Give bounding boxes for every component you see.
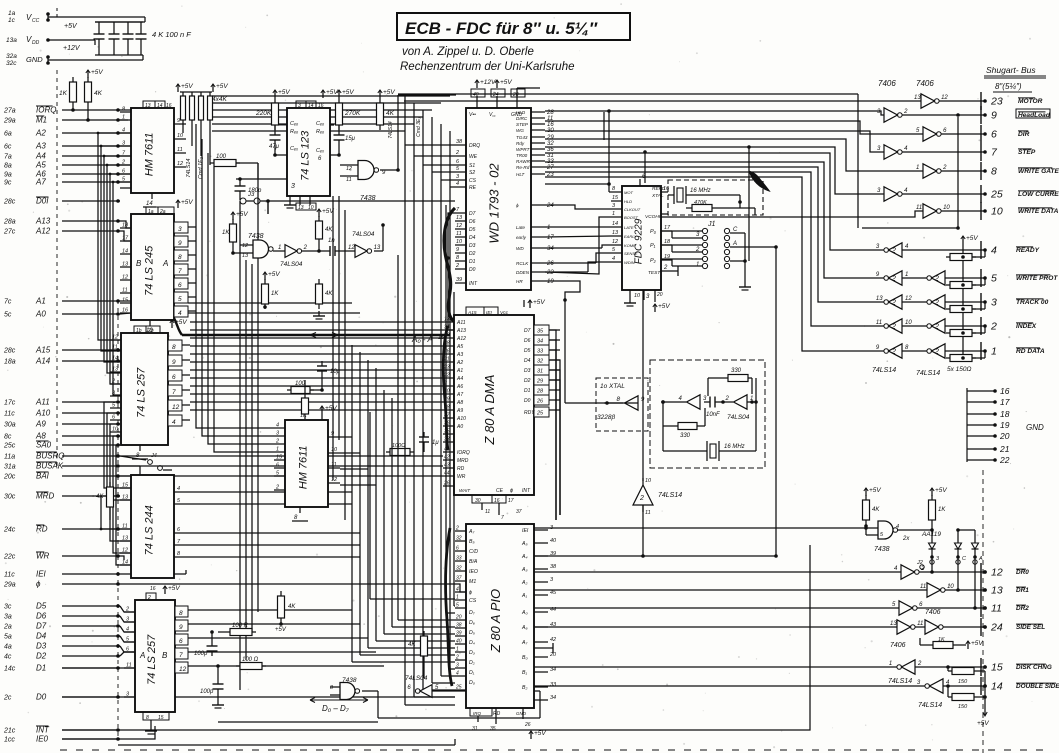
jumper J1 wires — [672, 230, 702, 232]
svg-text:11: 11 — [920, 584, 926, 590]
svg-text:A2: A2 — [456, 360, 463, 366]
svg-text:4c: 4c — [4, 654, 12, 661]
wire HeadLoad out — [902, 114, 985, 116]
svg-text:37: 37 — [516, 509, 522, 515]
node GND2 — [46, 55, 50, 59]
wire wd right verticals — [603, 112, 605, 140]
wire MOTOR in — [404, 100, 921, 102]
svg-text:J3: J3 — [247, 192, 255, 198]
svg-text:15: 15 — [991, 662, 1003, 674]
svg-text:38: 38 — [456, 139, 463, 145]
svg-text:32a: 32a — [6, 53, 17, 60]
svg-text:+5V: +5V — [181, 83, 193, 90]
svg-text:HR: HR — [516, 279, 523, 284]
capacitor 47u — [270, 134, 281, 136]
U21 wires — [642, 505, 644, 556]
svg-text:13: 13 — [122, 536, 129, 542]
svg-text:WDIN: WDIN — [624, 260, 635, 265]
svg-text:A7: A7 — [456, 392, 463, 398]
svg-text:12: 12 — [941, 95, 948, 101]
receiver 74LS14 INDEX a — [889, 319, 903, 333]
svg-text:2: 2 — [891, 349, 896, 356]
svg-text:14: 14 — [612, 221, 618, 227]
svg-text:DR0: DR0 — [1016, 569, 1029, 576]
svg-text:ϕ: ϕ — [516, 203, 519, 208]
wire bundle to DMA — [190, 321, 443, 323]
diode D1 AA119 — [929, 543, 936, 549]
svg-text:HLT: HLT — [516, 172, 526, 177]
svg-text:11: 11 — [346, 177, 352, 183]
svg-text:13: 13 — [374, 245, 381, 251]
label +5V recv — [962, 236, 964, 244]
svg-text:74LS14: 74LS14 — [918, 702, 942, 709]
svg-text:A: A — [978, 556, 983, 562]
svg-text:6: 6 — [991, 129, 997, 141]
svg-text:74 LS 257: 74 LS 257 — [136, 367, 148, 418]
svg-text:1: 1 — [905, 272, 908, 278]
svg-text:A8: A8 — [456, 400, 463, 406]
inverter U7 74LS04 — [355, 245, 367, 258]
svg-text:+5V: +5V — [383, 89, 395, 96]
wire RD DATA to fdc — [545, 177, 884, 351]
wire u15 left long — [545, 226, 611, 228]
svg-text:9: 9 — [456, 247, 459, 253]
svg-text:+5V: +5V — [216, 83, 228, 90]
svg-text:34: 34 — [547, 246, 554, 252]
svg-text:220K: 220K — [255, 110, 272, 117]
svg-text:2: 2 — [934, 300, 939, 307]
svg-text:41: 41 — [444, 447, 450, 453]
svg-text:A₇: A₇ — [468, 529, 474, 535]
wire DR0 out — [919, 571, 985, 573]
svg-text:1K: 1K — [938, 637, 945, 643]
svg-text:16: 16 — [1000, 386, 1010, 396]
svg-text:Z 80 A PIO: Z 80 A PIO — [488, 589, 503, 653]
bus line vertical — [980, 92, 982, 110]
capacitor 100p b — [213, 683, 224, 685]
svg-text:+5V: +5V — [869, 487, 881, 494]
svg-text:15μ: 15μ — [345, 136, 356, 142]
svg-text:+5V: +5V — [322, 208, 334, 215]
svg-text:+5V: +5V — [278, 89, 290, 96]
U4 right pin boxes — [174, 222, 188, 233]
wire DR0 in — [534, 571, 901, 573]
inverter U13 74LS04 — [420, 685, 432, 698]
svg-text:7406: 7406 — [890, 642, 906, 649]
driver 7406 HeadLoad — [884, 108, 898, 122]
svg-text:31: 31 — [472, 726, 478, 732]
wire u15 top pin6 — [644, 152, 646, 183]
U2 wires — [274, 145, 276, 155]
svg-text:26: 26 — [443, 349, 450, 355]
dashed left margin — [56, 70, 58, 470]
wire U14 D to DMA — [448, 213, 549, 330]
svg-text:3: 3 — [298, 103, 301, 109]
wire STEP out — [902, 151, 985, 153]
svg-text:A11: A11 — [35, 398, 50, 407]
svg-text:GND: GND — [26, 55, 43, 64]
svg-text:37: 37 — [444, 413, 450, 419]
svg-text:Cmd 1E₃: Cmd 1E₃ — [198, 156, 204, 179]
PIO U17 Z80A-PIO — [466, 524, 534, 708]
diode D2 AA119 — [955, 543, 962, 549]
svg-text:100 Ω: 100 Ω — [242, 657, 259, 663]
PROM U9 HM7611 — [285, 420, 328, 507]
U8 left pins — [110, 339, 121, 341]
svg-text:2: 2 — [934, 349, 939, 356]
buffer U10 74LS244 — [131, 475, 174, 578]
svg-text:A₀ - A: A₀ - A — [411, 335, 433, 344]
svg-text:32: 32 — [456, 536, 462, 542]
wire busrq to dma — [120, 455, 285, 457]
svg-text:11: 11 — [112, 345, 118, 351]
svg-text:16: 16 — [663, 186, 670, 192]
wire +5V rail — [48, 16, 145, 18]
svg-text:FDC 9229: FDC 9229 — [634, 218, 645, 264]
svg-text:4a: 4a — [4, 644, 12, 651]
svg-text:13: 13 — [890, 621, 897, 627]
wire D rows — [120, 606, 135, 612]
svg-text:26: 26 — [524, 722, 531, 728]
svg-text:14: 14 — [122, 560, 128, 566]
svg-text:Rdy: Rdy — [516, 141, 525, 146]
wire LOW CURRENT in — [545, 147, 884, 194]
capacitor bank 4x100nF — [95, 21, 143, 23]
svg-text:IEI: IEI — [522, 528, 529, 534]
svg-text:28: 28 — [536, 389, 544, 395]
svg-text:2: 2 — [663, 265, 668, 271]
U4 gnd — [149, 320, 151, 326]
svg-text:17: 17 — [122, 236, 129, 242]
svg-text:20c: 20c — [3, 474, 16, 481]
junction dots — [396, 168, 400, 172]
jumper J1 col1 — [702, 228, 707, 233]
svg-text:5: 5 — [991, 273, 997, 285]
svg-text:2: 2 — [903, 109, 908, 115]
FDC U14 WD1793-02 — [466, 108, 531, 290]
svg-text:Rₑₒ: Rₑₒ — [316, 129, 324, 135]
svg-text:WRITE DATA: WRITE DATA — [1018, 208, 1059, 215]
svg-text:+5V: +5V — [326, 89, 338, 96]
label D0-D7 — [310, 698, 368, 703]
svg-text:Cₑₒ: Cₑₒ — [316, 121, 324, 127]
svg-text:D1: D1 — [36, 664, 46, 673]
svg-text:39: 39 — [456, 277, 462, 283]
U17 left pins — [455, 530, 466, 532]
U2 bottom pins — [299, 196, 301, 205]
wire LOW CURRENT out — [902, 193, 985, 195]
wire top rails wd — [398, 94, 456, 96]
svg-text:17: 17 — [547, 235, 554, 241]
svg-text:26: 26 — [546, 261, 554, 267]
label box HeadLoad — [1016, 109, 1050, 118]
svg-text:9: 9 — [178, 240, 182, 247]
U9 left pins — [274, 427, 285, 429]
svg-text:34: 34 — [550, 695, 556, 701]
svg-text:+5V: +5V — [935, 487, 947, 494]
svg-text:A: A — [162, 259, 168, 268]
data separator U15 FDC9229 — [622, 186, 661, 290]
inverter U6 74LS04 — [285, 245, 297, 258]
svg-text:11: 11 — [456, 231, 462, 237]
svg-text:6a: 6a — [4, 131, 12, 138]
svg-text:WD: WD — [516, 246, 524, 251]
wire u8 outs — [182, 344, 190, 346]
svg-text:20: 20 — [549, 652, 557, 658]
svg-text:B₅: B₅ — [469, 539, 475, 545]
svg-text:A5: A5 — [35, 161, 46, 170]
svg-text:13a: 13a — [6, 37, 17, 44]
resistor 100R mid — [390, 449, 410, 456]
svg-text:22: 22 — [999, 455, 1010, 465]
svg-text:IE0: IE0 — [36, 735, 49, 744]
svg-text:Cₑₓ: Cₑₓ — [290, 146, 298, 152]
svg-text:1: 1 — [916, 165, 919, 171]
svg-text:1: 1 — [456, 647, 459, 653]
svg-text:9: 9 — [177, 118, 180, 124]
wire GND rail — [48, 59, 143, 61]
svg-text:D5: D5 — [469, 227, 476, 233]
wire bundle into U14 — [405, 144, 455, 146]
svg-text:D₇: D₇ — [469, 610, 475, 616]
svg-text:+5V: +5V — [268, 271, 280, 278]
svg-text:3: 3 — [456, 663, 459, 669]
U11 left pins — [124, 611, 135, 613]
svg-text:13: 13 — [444, 317, 450, 323]
svg-text:A15: A15 — [467, 310, 477, 316]
resistor 100 — [240, 663, 262, 670]
svg-text:38: 38 — [550, 564, 557, 570]
svg-text:DRQ: DRQ — [469, 143, 480, 149]
svg-text:B₂: B₂ — [522, 685, 527, 691]
capacitor 100p a — [207, 645, 218, 647]
svg-text:4K: 4K — [288, 604, 296, 610]
wire DR2 out — [917, 607, 985, 609]
wire busak row — [120, 465, 140, 467]
svg-text:10nF: 10nF — [706, 412, 720, 418]
svg-text:11: 11 — [916, 205, 922, 211]
U14 right pins — [531, 111, 545, 113]
svg-text:12: 12 — [331, 477, 337, 483]
resistor 4K dr a — [863, 500, 870, 520]
svg-text:D4: D4 — [469, 235, 476, 241]
svg-text:1K: 1K — [938, 507, 946, 513]
svg-text:RCLK: RCLK — [516, 261, 529, 266]
gate U3 7438 — [358, 161, 374, 180]
svg-text:2a: 2a — [3, 624, 12, 631]
svg-text:A1: A1 — [35, 297, 46, 306]
svg-text:D7: D7 — [469, 211, 476, 217]
svg-text:CS: CS — [469, 598, 477, 604]
svg-text:GND: GND — [1026, 423, 1044, 432]
svg-text:5: 5 — [178, 296, 182, 303]
wire rd wr rows — [120, 528, 131, 530]
svg-text:35: 35 — [490, 726, 496, 732]
svg-text:16 MHz: 16 MHz — [690, 188, 711, 194]
wire recv +5V rail — [962, 244, 964, 360]
svg-text:2: 2 — [942, 165, 947, 171]
svg-text:ϕ: ϕ — [510, 488, 513, 494]
wire u4 outs — [188, 226, 196, 228]
svg-text:A5: A5 — [456, 344, 463, 350]
svg-text:23: 23 — [443, 365, 450, 371]
resistor 1K low — [262, 284, 269, 304]
receiver 74LS14 DOUBLE SIDED — [930, 679, 944, 693]
svg-text:43: 43 — [444, 463, 450, 469]
resistor 150 a — [952, 668, 974, 675]
svg-text:8: 8 — [172, 344, 176, 351]
svg-text:A₃: A₃ — [521, 567, 528, 573]
svg-text:2: 2 — [920, 566, 925, 572]
svg-text:Cₑₓ: Cₑₓ — [316, 148, 324, 154]
svg-text:74LS04: 74LS04 — [405, 675, 428, 682]
svg-text:A3: A3 — [456, 352, 463, 358]
svg-text:RD DATA: RD DATA — [1016, 348, 1045, 355]
svg-text:14: 14 — [146, 201, 153, 207]
svg-text:11: 11 — [331, 462, 337, 468]
svg-text:A4: A4 — [35, 152, 46, 161]
svg-text:5a: 5a — [4, 634, 12, 641]
svg-text:RD: RD — [36, 525, 48, 534]
svg-text:10: 10 — [308, 205, 314, 211]
svg-text:B₁: B₁ — [522, 670, 527, 676]
svg-text:CLKOUT: CLKOUT — [624, 207, 641, 212]
wire A15 A14 rows — [120, 349, 121, 351]
svg-text:4: 4 — [991, 245, 997, 257]
svg-text:A1: A1 — [456, 368, 463, 374]
svg-text:A11: A11 — [456, 320, 466, 326]
svg-text:von A. Zippel u. D. Oberle: von A. Zippel u. D. Oberle — [402, 46, 534, 58]
svg-text:11: 11 — [177, 147, 183, 153]
wire fdc mot vertical — [608, 111, 610, 192]
svg-text:GND: GND — [516, 711, 527, 716]
svg-text:3: 3 — [178, 226, 182, 233]
svg-text:22: 22 — [443, 373, 450, 379]
PROM U1 HM7611 — [131, 108, 174, 193]
svg-text:P₂: P₂ — [650, 258, 657, 264]
svg-text:16: 16 — [166, 103, 172, 109]
svg-text:S2: S2 — [469, 170, 475, 176]
U16 left pins — [443, 321, 454, 323]
svg-text:74LS14: 74LS14 — [658, 492, 682, 499]
svg-text:2: 2 — [125, 607, 129, 613]
U1 right pins — [174, 123, 186, 125]
svg-text:+5V: +5V — [168, 585, 180, 592]
svg-text:13: 13 — [145, 103, 151, 109]
svg-text:4x4K: 4x4K — [212, 96, 227, 103]
svg-text:17: 17 — [1000, 397, 1010, 407]
svg-text:74LS14: 74LS14 — [388, 121, 394, 138]
svg-text:25c: 25c — [3, 443, 16, 450]
svg-text:3228β: 3228β — [597, 414, 615, 421]
svg-text:1cc: 1cc — [4, 737, 15, 744]
wire long rail a — [268, 200, 455, 202]
svg-text:A7: A7 — [35, 178, 46, 187]
svg-text:A13: A13 — [456, 328, 466, 334]
jumper J3 — [240, 198, 246, 204]
svg-text:34: 34 — [537, 339, 543, 345]
capacitor 10u u9 — [317, 365, 327, 367]
svg-text:7c: 7c — [4, 299, 12, 306]
svg-text:30a: 30a — [4, 422, 16, 429]
wire DR1 in — [534, 589, 927, 591]
svg-text:2: 2 — [891, 248, 896, 255]
svg-text:15: 15 — [122, 483, 129, 489]
U15 right pins — [661, 191, 668, 193]
wire DISK CHNG in — [915, 666, 985, 668]
svg-text:9a: 9a — [4, 172, 12, 179]
resistor 100R — [230, 629, 252, 636]
resistor 270K — [336, 103, 343, 125]
svg-text:2: 2 — [917, 661, 922, 667]
svg-text:12: 12 — [179, 666, 187, 673]
svg-text:3: 3 — [291, 183, 295, 190]
svg-text:P₀: P₀ — [650, 229, 657, 235]
svg-text:39: 39 — [456, 631, 462, 637]
resistor 4K left — [107, 487, 114, 507]
wire vcc drop — [56, 8, 58, 17]
svg-text:22: 22 — [546, 270, 554, 276]
svg-text:BAI: BAI — [36, 472, 50, 481]
svg-text:KOMP: KOMP — [624, 243, 636, 248]
svg-text:28c: 28c — [3, 348, 16, 355]
svg-text:20: 20 — [656, 292, 663, 298]
svg-text:1o XTAL: 1o XTAL — [600, 383, 625, 390]
svg-text:2a: 2a — [159, 209, 166, 215]
svg-text:WRITE GATE: WRITE GATE — [1018, 168, 1059, 175]
svg-text:A13: A13 — [35, 217, 51, 226]
svg-text:5c: 5c — [4, 312, 12, 319]
svg-text:16 MHz: 16 MHz — [724, 444, 745, 450]
svg-text:D2: D2 — [36, 652, 47, 661]
svg-text:DDEN: DDEN — [516, 270, 530, 275]
svg-text:12: 12 — [112, 335, 118, 341]
wire 100 to U2 — [214, 160, 236, 167]
resistor 4K low — [316, 284, 323, 304]
svg-text:RE: RE — [469, 185, 477, 191]
svg-text:D6: D6 — [469, 219, 476, 225]
receiver 74LS14 TRACK 00 b — [932, 295, 946, 309]
svg-text:DIRC: DIRC — [516, 116, 528, 121]
svg-text:STEP: STEP — [516, 122, 529, 127]
mux U8 74LS257 — [121, 333, 168, 445]
svg-text:2: 2 — [891, 276, 896, 283]
svg-text:4: 4 — [456, 671, 459, 677]
svg-text:21: 21 — [443, 357, 450, 363]
svg-text:150: 150 — [958, 679, 968, 685]
svg-text:2: 2 — [934, 324, 939, 331]
svg-text:11: 11 — [126, 663, 132, 669]
svg-text:6: 6 — [178, 282, 182, 289]
svg-text:S1: S1 — [469, 163, 475, 169]
svg-text:+5V: +5V — [91, 69, 103, 76]
svg-text:7: 7 — [178, 268, 182, 275]
svg-text:34: 34 — [444, 325, 450, 331]
svg-text:DR2: DR2 — [1016, 605, 1029, 612]
wire DMA right drops — [549, 330, 556, 520]
svg-text:WR: WR — [457, 474, 466, 480]
svg-text:100Ω: 100Ω — [392, 443, 405, 449]
svg-text:D1: D1 — [524, 388, 531, 394]
svg-text:A₄: A₄ — [521, 554, 528, 560]
U9 gnd — [299, 507, 301, 513]
svg-text:10: 10 — [456, 239, 463, 245]
svg-text:5x 150Ω: 5x 150Ω — [947, 366, 972, 373]
svg-text:2: 2 — [121, 160, 125, 166]
svg-text:D2: D2 — [469, 251, 476, 257]
jumper J1 col2 — [724, 228, 729, 233]
U8 right pin boxes — [168, 340, 182, 351]
